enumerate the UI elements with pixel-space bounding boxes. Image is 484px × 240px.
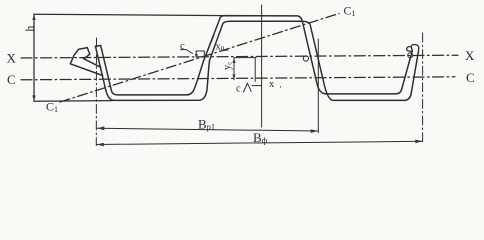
svg-text:C: C [7, 72, 16, 87]
circle marker on crest right web [303, 56, 308, 61]
arrow x0 on C1 line [223, 48, 229, 51]
dimension line Bp1 [97, 128, 318, 131]
arrowheads [32, 14, 422, 146]
extension line top for h [34, 14, 225, 15]
dimension line Bf [97, 141, 423, 144]
crest vertical centerline [261, 5, 263, 127]
axis C-C [21, 77, 455, 80]
svg-text:,: , [280, 80, 282, 89]
arrow h top [32, 14, 35, 20]
arrow at c bracket [195, 54, 198, 58]
left element web top cut [95, 45, 100, 48]
left element folded lip [70, 48, 102, 76]
axis C1-C1 (diagonal) [60, 14, 339, 103]
svg-text:c: c [236, 84, 241, 95]
svg-text:h: h [25, 26, 37, 32]
arrow Bf right [415, 140, 422, 144]
annotation y dimension (center cluster) [234, 58, 256, 82]
annotation slash tick c [244, 83, 252, 92]
annotation c bracket (upper cluster) [181, 50, 205, 58]
Bp1 right extension line [317, 39, 319, 133]
arrow y bottom [232, 74, 235, 79]
right element top hook cap [411, 45, 419, 52]
arrow Bp1 right [311, 129, 318, 133]
right element top hook loop [407, 47, 413, 52]
svg-text:C: C [466, 70, 475, 85]
sheet upper surface line [101, 16, 413, 95]
sheet lower surface line (left web, trough 1, crest, trough 2, right web) [95, 21, 418, 100]
svg-text:c: c [180, 41, 185, 52]
axis X-X [21, 55, 458, 58]
circle marker on right element web [408, 53, 413, 58]
arrow y top [232, 58, 235, 63]
right element centerline [422, 33, 424, 144]
left element centerline [95, 38, 97, 146]
extension line bottom for h [34, 100, 112, 103]
svg-text:X: X [7, 51, 17, 66]
arrow Bf left [97, 143, 104, 147]
svg-text:x: x [269, 79, 275, 90]
short web midline stroke near upper c bracket [205, 36, 214, 58]
arrow Bp1 left [97, 126, 104, 130]
arrow h bottom [32, 95, 35, 101]
paper background [0, 0, 484, 160]
annotation segment to centerline [252, 85, 262, 87]
svg-text:X: X [465, 48, 475, 63]
dimension line h [33, 14, 35, 101]
